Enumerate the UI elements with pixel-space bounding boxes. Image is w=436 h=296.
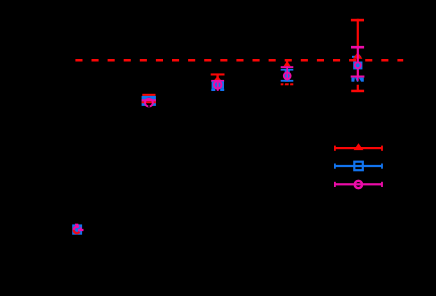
magenta circle (284, 72, 291, 79)
magenta circle (214, 81, 222, 89)
blue square (353, 62, 362, 70)
magenta arm (78, 227, 84, 231)
data point group 5 (351, 19, 365, 92)
black notch left (283, 83, 285, 86)
dashed threshold line (75, 59, 403, 62)
blue lower row (351, 78, 363, 82)
blue square marker (72, 224, 82, 234)
magenta stem (286, 66, 288, 81)
red legend right cap (381, 146, 383, 151)
red triangle small (284, 61, 291, 66)
black marker face (145, 98, 153, 106)
blue vertical bar (285, 69, 290, 82)
magenta legend right cap (381, 182, 383, 187)
black bottom notch (148, 106, 150, 108)
red second cap (142, 101, 156, 103)
red legend triangle (354, 143, 364, 150)
magenta legend open circle (355, 181, 362, 188)
blue legend line (335, 165, 382, 167)
magenta upper arc (74, 227, 79, 230)
magenta legend line (335, 183, 382, 185)
data point group 4 (281, 60, 294, 86)
magenta stem lower (357, 76, 359, 81)
red top cap (142, 94, 155, 96)
blue square (142, 96, 156, 106)
red top cap (351, 19, 364, 22)
magenta stem (217, 81, 219, 91)
magenta top stub (75, 224, 79, 228)
red bottom cap (351, 90, 364, 93)
black notch right (289, 83, 291, 86)
blue bottom cap (281, 80, 294, 82)
magenta top cap (351, 46, 364, 49)
legend entry red (334, 143, 383, 151)
data point group 1 (72, 224, 83, 235)
magenta stem upper (357, 46, 359, 77)
magenta cap (211, 80, 224, 82)
red stem (216, 75, 218, 80)
blue legend open square (354, 162, 363, 171)
magenta mid cap (142, 99, 156, 101)
blue bottom cap left piece (211, 89, 215, 91)
blue bottom cap right piece (220, 89, 224, 91)
blue legend right cap (381, 164, 383, 169)
black notch left (354, 77, 357, 82)
black notch right (358, 77, 361, 82)
red bottom cap (281, 83, 294, 85)
magenta circle (355, 62, 361, 68)
blue square (212, 81, 224, 88)
red stem from dash (286, 60, 288, 65)
data point group 2 (142, 94, 156, 108)
blue cap row under triangle (352, 56, 361, 58)
magenta top cap (281, 66, 294, 68)
red triangle (213, 76, 221, 81)
blue top cap (281, 69, 294, 71)
blue legend left cap (334, 164, 336, 169)
magenta circle (145, 99, 153, 107)
red open arc (74, 227, 80, 233)
red top cap (211, 73, 225, 75)
red vertical line (357, 19, 359, 90)
magenta lower cap (351, 76, 365, 78)
legend entry magenta (334, 181, 383, 188)
data point group 3 (211, 73, 225, 91)
black gap over stem (356, 82, 359, 85)
red legend line (335, 147, 382, 149)
legend entry blue (334, 162, 383, 171)
red triangle (353, 52, 362, 59)
magenta cap row under triangle (355, 56, 359, 58)
red legend left cap (334, 146, 336, 151)
magenta legend left cap (334, 182, 336, 187)
